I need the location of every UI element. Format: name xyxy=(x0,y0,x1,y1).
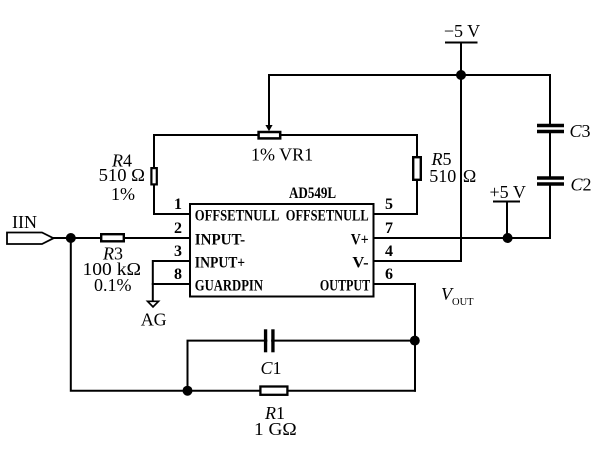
resistor R4 xyxy=(151,168,156,184)
wire R4 bottom to pin 1 xyxy=(154,186,190,215)
wire input node down the left side to R1 row xyxy=(71,238,188,391)
svg-text:Ω: Ω xyxy=(463,166,476,186)
capacitor C3 xyxy=(537,126,564,132)
svg-text:V-: V- xyxy=(352,254,368,271)
wire node right to C3 branch xyxy=(461,75,550,124)
svg-text:IIN: IIN xyxy=(12,212,37,232)
svg-text:−5 V: −5 V xyxy=(444,21,480,41)
node IIN junction xyxy=(66,233,76,243)
wire +5V bar to V+ row xyxy=(506,202,508,239)
svg-text:C3: C3 xyxy=(569,121,590,141)
svg-text:+5 V: +5 V xyxy=(490,182,526,202)
resistor R1 xyxy=(260,387,287,395)
ground AG open arrow xyxy=(148,301,159,307)
white gap between C1 plates xyxy=(267,328,271,353)
svg-text:INPUT+: INPUT+ xyxy=(195,254,245,271)
VR1 wiper arrowhead xyxy=(265,125,272,131)
wire pin 8 xyxy=(153,283,190,285)
wire node to VR1 arrow corner xyxy=(269,75,461,126)
capacitor C1 xyxy=(266,329,273,352)
svg-text:1% VR1: 1% VR1 xyxy=(251,145,313,165)
wire C3 to C2 xyxy=(549,133,551,176)
svg-text:2: 2 xyxy=(174,220,182,237)
svg-text:1%: 1% xyxy=(111,184,135,204)
svg-text:OUTPUT: OUTPUT xyxy=(320,277,371,294)
potentiometer VR1 xyxy=(259,132,281,138)
svg-text:OFFSETNULL: OFFSETNULL xyxy=(286,207,369,224)
svg-text:3: 3 xyxy=(174,243,182,260)
wire input node through R3 to pin 2 xyxy=(54,237,191,239)
wire C1 branch xyxy=(188,341,416,391)
wire C2 bottom to V+ row xyxy=(374,186,551,238)
wire pin 3 to ground stem xyxy=(153,261,190,301)
node R1 / C1 junction xyxy=(183,386,193,396)
svg-text:510 Ω: 510 Ω xyxy=(99,165,145,185)
node output / C1 junction xyxy=(410,336,420,346)
-5V supply bar xyxy=(445,42,478,44)
wire R1 row xyxy=(188,390,416,392)
svg-text:V+: V+ xyxy=(351,231,369,248)
svg-text:GUARDPIN: GUARDPIN xyxy=(195,277,264,294)
node +5V / V+ junction xyxy=(503,233,513,243)
resistor R3 xyxy=(101,234,124,241)
resistor R5 xyxy=(413,157,421,180)
svg-text:C1: C1 xyxy=(260,358,281,378)
svg-text:1: 1 xyxy=(174,196,182,213)
svg-text:5: 5 xyxy=(385,196,393,213)
wire -5V node down to V- pin 4 xyxy=(374,75,462,261)
wire -5V bar to node xyxy=(460,43,462,76)
svg-text:7: 7 xyxy=(385,220,393,237)
svg-text:AG: AG xyxy=(141,310,167,330)
svg-text:1 GΩ: 1 GΩ xyxy=(254,419,297,439)
svg-text:0.1%: 0.1% xyxy=(94,275,132,295)
input terminal IIN pentagon xyxy=(7,233,54,245)
svg-text:8: 8 xyxy=(174,266,182,283)
svg-text:4: 4 xyxy=(385,243,393,260)
op-amp IC U1 box xyxy=(190,204,374,297)
svg-text:AD549L: AD549L xyxy=(289,185,336,202)
node -5V junction xyxy=(456,70,466,80)
svg-text:INPUT-: INPUT- xyxy=(195,231,245,248)
svg-text:C2: C2 xyxy=(570,175,591,195)
wire top horizontal y=135 from R4 to R5 xyxy=(154,135,417,167)
wire output pin 6 down to R1 row xyxy=(374,284,416,391)
svg-text:510: 510 xyxy=(429,166,456,186)
capacitor C2 xyxy=(537,178,564,184)
+5V supply bar xyxy=(493,201,520,203)
svg-text:6: 6 xyxy=(385,266,393,283)
wire R5 bottom to pin 5 xyxy=(374,181,418,214)
svg-text:OFFSETNULL: OFFSETNULL xyxy=(195,207,279,224)
